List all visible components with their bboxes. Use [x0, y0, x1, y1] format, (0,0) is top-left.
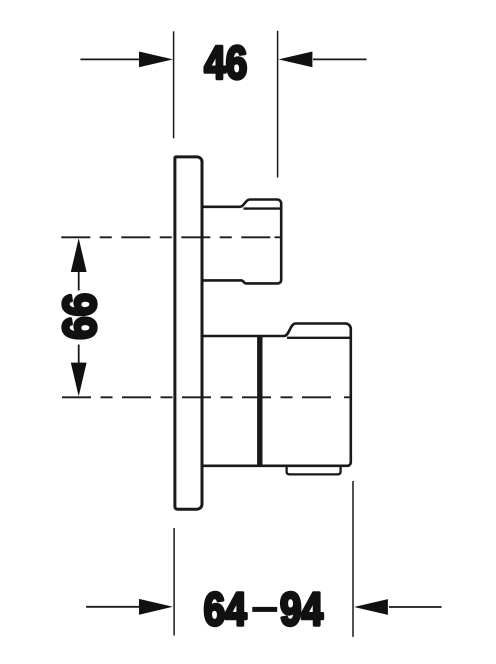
svg-text:66: 66: [55, 293, 106, 340]
dim46 right extension line: [277, 31, 279, 178]
top handle grip underside line: [244, 207, 281, 209]
dim64-94 left extension line: [173, 528, 175, 636]
dim46 left arrowhead: [139, 52, 173, 68]
svg-text:94: 94: [280, 584, 323, 636]
dim66 down arrowhead: [71, 363, 87, 397]
dim64-94 right arrow line: [389, 606, 442, 608]
svg-text:46: 46: [204, 37, 247, 89]
dim46 right arrowhead: [279, 52, 313, 68]
center line bottom axis end dash: [344, 396, 351, 398]
center line bottom axis: [62, 396, 337, 398]
bottom handle grip underside line: [287, 337, 350, 339]
dim64-94 left arrow line: [86, 606, 140, 608]
dim46 left arrow line: [80, 58, 140, 60]
top handle outline: [204, 200, 282, 284]
dim64-94 left arrowhead: [139, 599, 173, 615]
dim64-94 right extension line: [352, 481, 354, 637]
dim66 line lower segment: [78, 345, 80, 366]
dim46 right arrow line: [313, 58, 367, 60]
svg-text:64: 64: [204, 584, 247, 636]
dim46 left extension line: [173, 31, 175, 138]
center line top axis: [61, 236, 272, 238]
bottom handle foot tab: [287, 467, 341, 475]
dim66 line upper segment: [78, 270, 80, 291]
wall plate (escutcheon): [175, 157, 202, 509]
bottom handle joint line (sleeve/grip seam): [257, 336, 262, 466]
dim64-94 right arrowhead: [354, 599, 388, 615]
dim66 up arrowhead: [71, 238, 87, 272]
bottom handle outline: [204, 323, 351, 465]
center line top axis end dash: [275, 236, 282, 238]
dim64-94 label dash: [252, 607, 277, 612]
